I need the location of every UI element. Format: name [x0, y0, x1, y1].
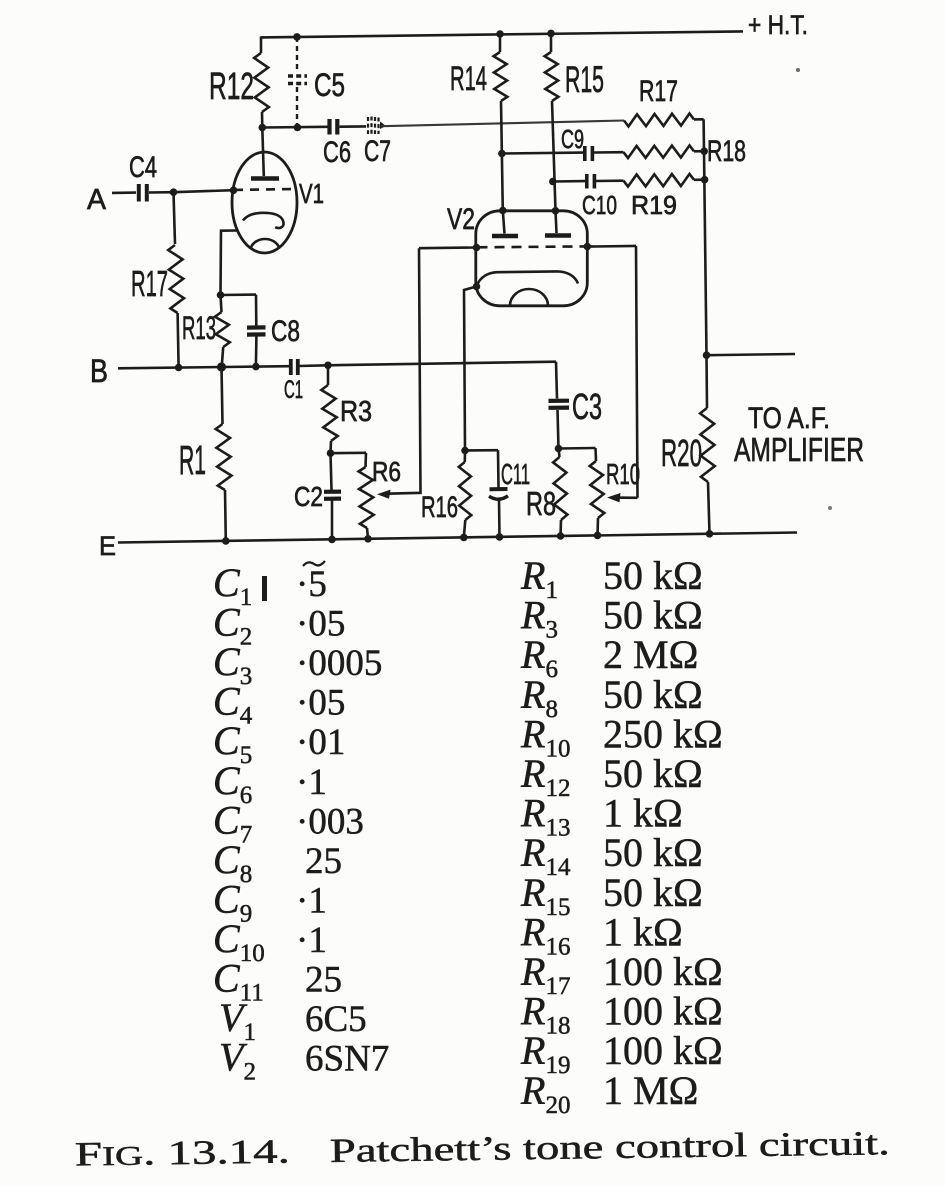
svg-text:C7: C7 [364, 135, 391, 168]
node V2 right anode entry [552, 207, 560, 215]
capacitor C5 (trimmer, dashed) [296, 37, 298, 71]
wire HT to R15 [550, 33, 553, 52]
wire R20 to E rail [708, 482, 710, 534]
capacitor C7 (sketchy trimmer) [367, 117, 369, 134]
svg-text:A: A [87, 184, 107, 216]
wire V1 anode lead [262, 128, 264, 177]
node V1 grid [230, 187, 238, 195]
svg-text:·5: ·5 [296, 564, 327, 605]
wire C6 to C7 [340, 125, 367, 128]
wire R10 wiper horizontal [612, 496, 638, 499]
wire cathode node to C8 [221, 293, 257, 296]
svg-text:C9: C9 [561, 124, 584, 154]
svg-text:R16: R16 [421, 491, 458, 524]
node R17-B junction [175, 364, 183, 372]
node HT-R14 junction [496, 30, 504, 38]
wire R1 top lead [222, 367, 223, 424]
svg-text:100 kΩ: 100 kΩ [603, 949, 723, 994]
node cathode-R16-C11 junction [461, 447, 469, 455]
resistor R20 [700, 408, 715, 482]
V1 grid (dashed) [234, 188, 295, 191]
wire cathode junction to C11 [465, 449, 498, 452]
svg-text:R3: R3 [340, 396, 372, 428]
wire R6 top lead [364, 453, 367, 467]
V2 left anode plate [492, 234, 518, 239]
resistor R12 [254, 53, 269, 112]
wire R10 wiper bus vertical [636, 246, 638, 498]
node R12 anode junction [259, 124, 267, 132]
wire C8 top lead [255, 295, 258, 326]
svg-text:·01: ·01 [296, 722, 345, 763]
wire right bus vertical [704, 119, 707, 355]
wire HT to R12 [260, 36, 263, 53]
wire C10 to R19 [596, 179, 624, 182]
wire R14 to V2 anode [501, 101, 503, 211]
svg-text:50 kΩ: 50 kΩ [603, 751, 703, 796]
node R19 right junction [701, 176, 709, 184]
svg-text:50 kΩ: 50 kΩ [603, 593, 703, 638]
scan speck near R17 row [796, 68, 800, 72]
svg-text:25: 25 [305, 841, 342, 882]
svg-text:R14: R14 [450, 60, 487, 98]
node B-C8 junction [252, 363, 260, 371]
wire E ground rail [118, 533, 797, 543]
wire HT to R14 [499, 34, 502, 52]
node E-R16 junction [460, 534, 468, 542]
svg-text:100 kΩ: 100 kΩ [603, 1028, 723, 1073]
wire junction to R6 [331, 451, 367, 454]
wire junction to R10 [559, 447, 596, 450]
resistor R15 [545, 52, 559, 101]
resistor R1 [216, 424, 232, 490]
node cathode-R13-C8 junction [217, 291, 225, 299]
tube V2 envelope [476, 211, 588, 306]
svg-text:100 kΩ: 100 kΩ [603, 989, 723, 1034]
R10 wiper arrowhead [607, 493, 621, 502]
wire R3 bottom lead [329, 441, 332, 453]
svg-text:B: B [90, 353, 108, 389]
capacitor C6 [327, 119, 331, 135]
capacitor C1 [289, 359, 293, 375]
resistor R14 [494, 52, 508, 101]
wire C11 top lead [497, 450, 500, 487]
wire R6 to E rail [367, 528, 368, 539]
wire V2 right anode lead [556, 211, 557, 233]
wire B rail to C3 corner [328, 362, 556, 366]
print artifact after C1 [262, 576, 267, 601]
svg-text:·003: ·003 [296, 801, 364, 842]
svg-text:6SN7: 6SN7 [305, 1039, 389, 1080]
svg-text:R13: R13 [182, 310, 216, 346]
svg-text:50 kΩ: 50 kΩ [603, 870, 703, 915]
capacitor C10 [585, 174, 589, 189]
resistor R18 [624, 145, 695, 158]
wire output to A.F. amplifier [707, 354, 796, 355]
node A junction [170, 188, 178, 196]
svg-text:·1: ·1 [296, 762, 327, 803]
wire B input rail [118, 366, 289, 368]
svg-text:C8: C8 [271, 315, 300, 348]
wire R10 top lead [594, 448, 597, 461]
resistor R10 (pot) [590, 461, 605, 518]
capacitor C9 [583, 146, 587, 161]
V2 grid (dashed) [478, 245, 588, 249]
svg-text:R15: R15 [565, 59, 604, 100]
wire anode node to C6 [262, 126, 327, 129]
wire R1 to E rail [224, 490, 227, 541]
wire C2 top lead [331, 453, 332, 490]
V2 cathode [477, 271, 578, 285]
svg-text:R20: R20 [661, 433, 702, 475]
resistor R6 (pot) [359, 467, 374, 528]
capacitor C3 [549, 399, 570, 403]
capacitor C8 [247, 325, 266, 329]
svg-text:C1: C1 [284, 376, 303, 404]
wire grid node down to R17 [174, 192, 176, 244]
capacitor C2 [324, 490, 341, 494]
node R18 right junction [700, 147, 708, 155]
wire C9 to R18 [594, 151, 624, 154]
wire V1 cathode lead [221, 231, 238, 296]
resistor R17 (feedback) [624, 114, 694, 127]
tube V1 envelope [232, 152, 297, 253]
wire V2 cathode lead [464, 287, 477, 451]
node R3-C2-R6 junction [327, 449, 335, 457]
node E-R10 junction [594, 532, 602, 540]
wire R18 to right bus [694, 150, 704, 153]
svg-text:·1: ·1 [296, 920, 327, 961]
wire R12 to anode node [261, 112, 264, 128]
node V2 left anode entry [499, 207, 507, 215]
wire R10 to E rail [596, 518, 599, 535]
node E-R6 junction [364, 535, 372, 543]
V1 heater dome [251, 239, 279, 248]
svg-text:C4: C4 [129, 151, 157, 184]
wire R13 to B rail [222, 347, 224, 367]
svg-text:R18: R18 [707, 135, 746, 168]
wire V2 left anode lead [503, 211, 505, 234]
node C5 anode junction [294, 124, 302, 132]
scan speck right margin [828, 506, 832, 510]
svg-text:1 kΩ: 1 kΩ [603, 909, 683, 954]
svg-text:50 kΩ: 50 kΩ [603, 553, 703, 598]
svg-text:C10: C10 [582, 190, 617, 220]
svg-text:R19: R19 [631, 190, 677, 220]
wire C11 to E rail [498, 500, 501, 537]
svg-text:E: E [99, 531, 116, 561]
wire C4 to grid node [149, 191, 174, 194]
resistor R13 [215, 312, 230, 347]
capacitor C4 [137, 184, 141, 202]
svg-text:·1: ·1 [296, 880, 327, 921]
wire input A to C4 [112, 191, 136, 194]
resistor R17 (input) [168, 245, 184, 313]
node HT-C5 junction [293, 33, 301, 41]
node C3-R8-R10 junction [555, 445, 563, 453]
wire R6 wiper to V2 grid [382, 248, 421, 494]
svg-text:C5: C5 [314, 67, 345, 103]
svg-text:V2: V2 [447, 203, 475, 236]
node V2 left grid [473, 244, 481, 252]
svg-text:2 MΩ: 2 MΩ [603, 632, 698, 677]
svg-text:V1: V1 [299, 178, 324, 209]
wire R8 to E rail [559, 520, 562, 536]
svg-text:1 MΩ: 1 MΩ [603, 1068, 698, 1113]
svg-text:·05: ·05 [296, 604, 345, 645]
node V2 cathode exit [473, 283, 481, 291]
node R14-C9 tap [498, 150, 506, 158]
V1 anode plate [251, 176, 279, 181]
svg-text:AMPLIFIER: AMPLIFIER [734, 431, 864, 468]
resistor R19 [624, 174, 695, 187]
wire +H.T. supply rail [261, 31, 743, 37]
svg-text:R1: R1 [179, 437, 206, 483]
wire B rail after C1 [299, 364, 329, 367]
wire C10 row [553, 180, 585, 183]
node B-R13-R1 junction [217, 362, 226, 371]
node E-R20 junction [706, 530, 714, 538]
svg-text:C3: C3 [572, 386, 602, 427]
node output junction [703, 351, 711, 359]
wire R19 to right bus [694, 178, 705, 181]
svg-text:R17: R17 [131, 263, 168, 304]
node E-R8 junction [557, 532, 565, 540]
svg-text:R17: R17 [639, 75, 678, 108]
node R15-C10 tap [549, 178, 557, 186]
svg-text:C6: C6 [323, 136, 351, 169]
V1 cathode [243, 213, 284, 228]
svg-text:25: 25 [305, 960, 342, 1001]
wire C8 to B rail [255, 337, 258, 367]
svg-text:1 kΩ: 1 kΩ [603, 791, 683, 836]
wire C2 to E rail [331, 500, 334, 539]
node HT-R15 junction [547, 30, 555, 38]
svg-text:+ H.T.: + H.T. [748, 10, 808, 40]
wire C7 to R17 feedback [381, 121, 624, 127]
V2 right anode plate [545, 233, 571, 238]
node E-C11 junction [496, 533, 504, 541]
R6 wiper arrowhead [377, 490, 391, 499]
svg-text:R6: R6 [372, 456, 401, 487]
wire V2 left grid to R6 wiper bus [419, 246, 477, 249]
svg-text:R8: R8 [526, 485, 556, 522]
resistor R3 [321, 385, 337, 441]
svg-text:6C5: 6C5 [305, 999, 367, 1040]
wire C9 row [502, 151, 583, 154]
svg-text:Patchett’s tone control circui: Patchett’s tone control circuit. [330, 1125, 890, 1170]
wire V2 right grid to R10 wiper [587, 245, 636, 248]
scan artifact tilde above C1 value [303, 561, 325, 566]
wire R13 lead [221, 295, 222, 312]
wire R3 top lead [327, 365, 330, 385]
node V2 right grid [584, 243, 592, 251]
resistor R8 [553, 457, 567, 520]
V2 heater dome [510, 289, 548, 306]
wire grid node to V1 grid [174, 190, 234, 192]
svg-text:·0005: ·0005 [296, 643, 382, 684]
wire R17 to right bus [694, 118, 704, 121]
capacitor C11 (electrolytic) [490, 487, 508, 491]
wire R16 top lead [463, 451, 466, 463]
svg-text:·05: ·05 [296, 683, 345, 724]
resistor R16 [459, 462, 472, 520]
node E-R1 junction [222, 537, 230, 545]
wire R20 top lead [705, 355, 708, 408]
wire C3 to R8 junction [558, 410, 559, 449]
node E-C2 junction [328, 536, 336, 544]
svg-text:50 kΩ: 50 kΩ [603, 830, 703, 875]
svg-text:C11: C11 [501, 459, 530, 491]
svg-text:250 kΩ: 250 kΩ [603, 711, 723, 756]
wire R16 to E rail [464, 520, 466, 537]
svg-text:R12: R12 [209, 66, 254, 108]
node B-R3 junction [324, 362, 332, 370]
svg-text:C2: C2 [294, 481, 323, 512]
svg-text:50 kΩ: 50 kΩ [603, 672, 703, 717]
wire R17 to B rail [178, 313, 179, 368]
wire C3 top lead [556, 362, 557, 399]
wire R15 to V2 anode [552, 101, 556, 211]
svg-text:R10: R10 [606, 459, 640, 491]
wire R8 top lead [559, 449, 560, 458]
